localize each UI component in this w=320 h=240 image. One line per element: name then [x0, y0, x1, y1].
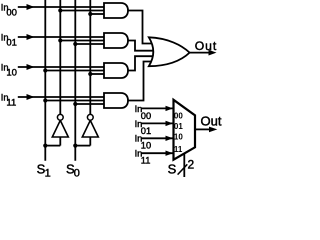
wire tap gate2 mid — [60, 40, 104, 42]
bus slash — [178, 164, 188, 174]
svg-text:10: 10 — [174, 133, 183, 142]
label mux In00 — [135, 104, 152, 121]
wire mux In01 — [141, 122, 174, 124]
wire tap gate2 bottom — [75, 43, 104, 45]
wire mux output — [195, 128, 211, 130]
node S1 junction — [43, 144, 47, 148]
wire tap gate3 bottom — [90, 73, 104, 75]
wire S0 vertical — [74, 0, 76, 161]
inverter S0 — [82, 114, 98, 145]
and-gate G3 — [104, 63, 128, 78]
node gate1 mid — [58, 8, 62, 12]
wire tap gate4 bottom — [75, 103, 104, 105]
node gate1 bottom — [88, 12, 92, 16]
wire tap gate4 mid — [45, 100, 104, 102]
and-gate G4 — [104, 93, 128, 108]
label In10 — [1, 62, 17, 78]
node gate2 bottom — [73, 42, 77, 46]
and-gate G1 — [104, 3, 128, 18]
svg-text:00: 00 — [6, 8, 17, 19]
wire S1 junction — [45, 145, 60, 147]
wire In01 — [18, 36, 104, 38]
wire S1 vertical — [44, 0, 46, 161]
svg-text:0: 0 — [74, 167, 80, 177]
svg-text:2: 2 — [188, 157, 195, 171]
wire mux In00 — [141, 107, 174, 109]
wire mux select S — [183, 153, 185, 177]
mux M1 body — [174, 100, 196, 160]
label In01 — [1, 32, 17, 48]
wire tap gate3 mid — [45, 70, 104, 72]
wire mux In10 — [141, 137, 174, 139]
label mux In11 — [135, 149, 151, 166]
svg-text:11: 11 — [174, 145, 183, 154]
wire S0 junction — [75, 145, 90, 147]
svg-text:S: S — [168, 161, 177, 176]
node S0 junction — [73, 144, 77, 148]
svg-text:1: 1 — [45, 167, 51, 177]
or-gate U1 — [149, 37, 190, 66]
svg-text:11: 11 — [141, 156, 151, 166]
svg-text:Out: Out — [201, 114, 222, 129]
node gate4 bottom — [73, 102, 77, 106]
wire G4 to OR — [128, 62, 152, 101]
wire S1-inverted vertical — [59, 0, 61, 115]
wire In10 — [18, 66, 104, 68]
and-gate G2 — [104, 33, 128, 48]
node gate3 bottom — [88, 72, 92, 76]
label In00 — [1, 2, 17, 18]
svg-text:Out: Out — [195, 39, 217, 53]
wire S0-inverted vertical — [89, 0, 91, 115]
label mux In10 — [135, 134, 152, 151]
inverter S1 — [52, 114, 68, 145]
node gate4 mid — [43, 98, 47, 102]
node gate2 mid — [58, 38, 62, 42]
label mux In01 — [135, 119, 152, 136]
svg-text:10: 10 — [6, 68, 17, 79]
label S0 — [66, 161, 80, 179]
wire mux In11 — [141, 152, 174, 154]
wire tap gate1 mid — [60, 10, 104, 12]
wire OR output — [189, 52, 210, 54]
wire G3 to OR — [128, 56, 153, 70]
svg-text:01: 01 — [174, 122, 183, 131]
label In11 — [1, 92, 16, 108]
label S1 — [37, 161, 51, 179]
wire G1 to OR — [128, 11, 152, 44]
node gate3 mid — [43, 68, 47, 72]
wire G2 to OR — [128, 41, 153, 51]
svg-text:00: 00 — [174, 111, 183, 120]
wire tap gate1 bottom — [90, 13, 104, 15]
wire In11 — [18, 96, 104, 98]
svg-text:11: 11 — [6, 98, 16, 109]
svg-text:01: 01 — [6, 38, 17, 49]
wire In00 — [18, 6, 104, 8]
